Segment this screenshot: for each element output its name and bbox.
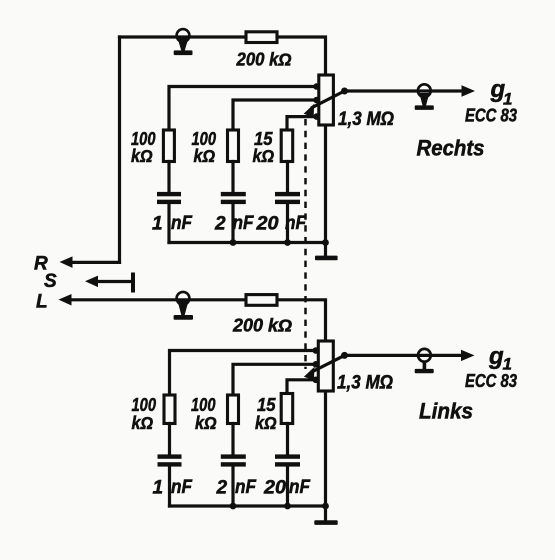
svg-text:1,3 MΩ: 1,3 MΩ: [338, 109, 394, 130]
wire: tap2 from 100k column 2 to pot: [233, 100, 319, 130]
junction rail-ground: [322, 239, 329, 246]
capacitor 1nF (top): [157, 192, 181, 204]
svg-text:kΩ: kΩ: [195, 413, 217, 433]
svg-text:15: 15: [257, 395, 276, 415]
label 1 nF (bottom): [153, 477, 194, 499]
label g1 (bottom): [488, 343, 512, 374]
wire: tap3 from 15k column to pot: [287, 117, 319, 130]
svg-text:ECC 83: ECC 83: [465, 106, 517, 126]
wire: ground rail (bottom): [170, 504, 326, 507]
resistor 100k #2 (bottom): [228, 395, 239, 424]
input terminal (bottom, on L line): [174, 292, 193, 320]
wire: column2 cap to rail: [231, 204, 234, 242]
resistor 15k (bottom): [281, 394, 293, 424]
svg-text:nF: nF: [233, 213, 255, 234]
svg-text:nF: nF: [171, 477, 193, 498]
junction wiper-output (top): [341, 88, 348, 95]
junction rail-cap2: [230, 239, 237, 246]
wire: tap1 bottom from 100k column 1 to pot: [170, 351, 319, 396]
wiper arrowhead (bottom pot): [304, 367, 315, 380]
label 2 nF (bottom): [216, 477, 258, 499]
wire: column1 resistor to cap: [167, 162, 170, 193]
wire: column2 bottom resistor to cap: [231, 424, 234, 455]
svg-text:2: 2: [216, 478, 228, 499]
junction tap1 bottom: [313, 347, 320, 354]
wire: column1 bottom resistor to cap: [168, 424, 171, 455]
label 100k #2 (bottom): [191, 395, 217, 433]
junction rail-cap3 bottom: [284, 503, 291, 510]
wire: column2 bottom cap to rail: [231, 467, 234, 506]
wiper line (bottom pot): [313, 355, 345, 371]
resistor 100k #1 (bottom): [164, 395, 175, 424]
arrow S (points left): [85, 276, 98, 288]
wire: column2 resistor to cap: [231, 162, 234, 193]
svg-text:nF: nF: [235, 477, 257, 498]
arrow R (points left): [60, 256, 73, 268]
resistor 200 kOhm (top): [246, 32, 277, 43]
wire: R input stub to outer loop: [70, 261, 120, 264]
junction tap3: [313, 113, 320, 120]
wire: S input stub: [97, 280, 133, 283]
wire: pot bottom lead: [324, 125, 327, 243]
svg-text:1,3 MΩ: 1,3 MΩ: [337, 373, 393, 394]
label 20 nF (top): [255, 213, 307, 235]
wire: pot bottom lead (bottom): [324, 391, 327, 506]
output terminal (top): [415, 84, 434, 110]
svg-text:nF: nF: [285, 213, 307, 234]
wire: column3 bottom cap to rail: [286, 467, 289, 506]
svg-text:L: L: [36, 292, 48, 313]
ground (bottom): [314, 506, 337, 525]
output arrow (top): [462, 85, 476, 96]
mechanical coupling (dashed): [304, 119, 307, 369]
svg-text:kΩ: kΩ: [132, 413, 154, 433]
S terminal bar: [131, 273, 135, 293]
svg-text:100: 100: [191, 395, 216, 415]
resistor 100k #1 (top): [163, 130, 174, 162]
capacitor 2nF (top): [221, 192, 246, 204]
label 100k #1 (top): [131, 129, 156, 166]
junction tap2 bottom: [313, 361, 320, 368]
label 20 nF (bottom): [263, 477, 311, 499]
capacitor 20nF (bottom): [275, 454, 300, 466]
output terminal (bottom): [415, 349, 434, 373]
wire: column3 resistor to cap: [286, 162, 289, 193]
svg-text:2: 2: [214, 214, 226, 235]
label 15k (bottom): [255, 395, 277, 433]
svg-text:nF: nF: [289, 477, 311, 498]
junction rail-cap2 bottom: [230, 503, 237, 510]
junction wiper-output (bottom): [341, 352, 348, 359]
wire: ground rail (top): [169, 241, 326, 244]
arrow L (points left): [59, 294, 72, 306]
svg-text:ECC 83: ECC 83: [465, 371, 517, 391]
input terminal (top, on top rail): [174, 29, 193, 55]
svg-text:kΩ: kΩ: [253, 146, 275, 166]
wire: top horizontal rail to pot: [120, 37, 326, 75]
svg-text:Links: Links: [419, 399, 473, 424]
potentiometer 1,3 MOhm body (top): [319, 75, 334, 125]
wire: tap1 from 100k column 1 to pot: [169, 87, 319, 131]
label g1 (top): [490, 76, 513, 109]
wire: column3 cap to rail: [286, 204, 289, 242]
svg-text:1: 1: [152, 214, 163, 235]
svg-text:nF: nF: [171, 213, 193, 234]
wire: column1 cap to rail: [167, 204, 170, 242]
junction tap1: [313, 83, 320, 90]
label 100k #1 (bottom): [132, 395, 157, 433]
svg-text:kΩ: kΩ: [194, 146, 216, 166]
wire: outer left vertical riser: [118, 37, 121, 262]
potentiometer 1,3 MOhm body (bottom): [318, 341, 333, 391]
label 100k #2 (top): [192, 129, 217, 166]
capacitor 20nF (top): [275, 192, 300, 204]
wire: L input line to bottom pot: [69, 300, 326, 341]
svg-text:20: 20: [255, 214, 278, 235]
junction tap3 bottom: [313, 377, 320, 384]
wire: tap3 bottom from 15k column to pot: [287, 380, 318, 394]
svg-text:kΩ: kΩ: [255, 413, 277, 433]
svg-text:100: 100: [132, 395, 157, 415]
wire: output to grid (bottom): [345, 354, 462, 357]
wire: column3 bottom resistor to cap: [286, 424, 289, 455]
capacitor 2nF (bottom): [221, 454, 246, 466]
svg-text:1: 1: [153, 478, 164, 499]
capacitor 1nF (bottom): [158, 454, 182, 466]
resistor 15k (top): [281, 130, 293, 162]
label 1 nF (top): [152, 213, 193, 235]
junction rail-cap3: [284, 239, 291, 246]
svg-text:200 kΩ: 200 kΩ: [232, 316, 292, 336]
resistor 100k #2 (top): [228, 130, 239, 162]
wire: column1 bottom cap to rail: [168, 467, 171, 506]
output arrow (bottom): [461, 350, 475, 361]
svg-text:200 kΩ: 200 kΩ: [236, 50, 292, 70]
junction rail-ground bottom: [322, 503, 329, 510]
svg-text:Rechts: Rechts: [417, 136, 485, 161]
wire: output to grid (top): [345, 89, 461, 92]
label 15k (top): [253, 129, 275, 166]
svg-text:kΩ: kΩ: [131, 146, 153, 166]
svg-text:20: 20: [263, 478, 286, 499]
wiper line (top pot): [313, 91, 345, 107]
wire: tap2 bottom from 100k column 2 to pot: [233, 364, 318, 395]
svg-text:S: S: [44, 271, 57, 292]
resistor 200 kOhm (bottom): [246, 295, 277, 306]
junction tap2: [313, 97, 320, 104]
label 2 nF (top): [214, 213, 255, 235]
ground (top): [315, 243, 338, 261]
wiper arrowhead (top pot): [304, 104, 315, 117]
